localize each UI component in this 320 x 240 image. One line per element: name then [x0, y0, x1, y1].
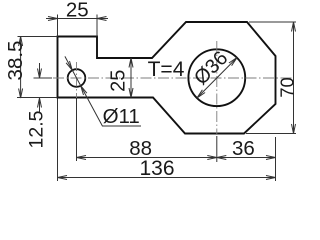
centerline vertical small hole: [76, 62, 78, 98]
svg-text:38.5: 38.5: [4, 41, 27, 81]
centerline vertical big hole: [216, 41, 218, 135]
dimension 38.5 left: [17, 37, 58, 99]
dimension 88 bottom: [77, 99, 217, 163]
dimension Ø11 leader: [65, 56, 141, 126]
svg-text:36: 36: [232, 137, 255, 160]
dimension Ø36 diagonal: [197, 58, 237, 98]
centerline horizontal through holes: [34, 77, 293, 79]
dimension 25 top: [46, 15, 108, 37]
dimension 136 bottom: [58, 99, 276, 182]
svg-text:Ø11: Ø11: [103, 105, 140, 128]
svg-text:T=4: T=4: [148, 58, 185, 81]
dimension 12.5 left: [34, 63, 53, 113]
dimension 70 right: [246, 22, 296, 134]
svg-text:25: 25: [66, 0, 89, 22]
part outline: [58, 22, 276, 134]
dimension 36 bottom: [217, 137, 276, 181]
svg-text:25: 25: [107, 70, 129, 92]
svg-text:136: 136: [139, 157, 174, 180]
hole Ø11: [68, 69, 86, 87]
hole Ø36: [188, 49, 245, 106]
dimension 25 neck: [129, 58, 133, 98]
svg-text:12.5: 12.5: [25, 110, 47, 148]
svg-text:70: 70: [277, 77, 298, 98]
